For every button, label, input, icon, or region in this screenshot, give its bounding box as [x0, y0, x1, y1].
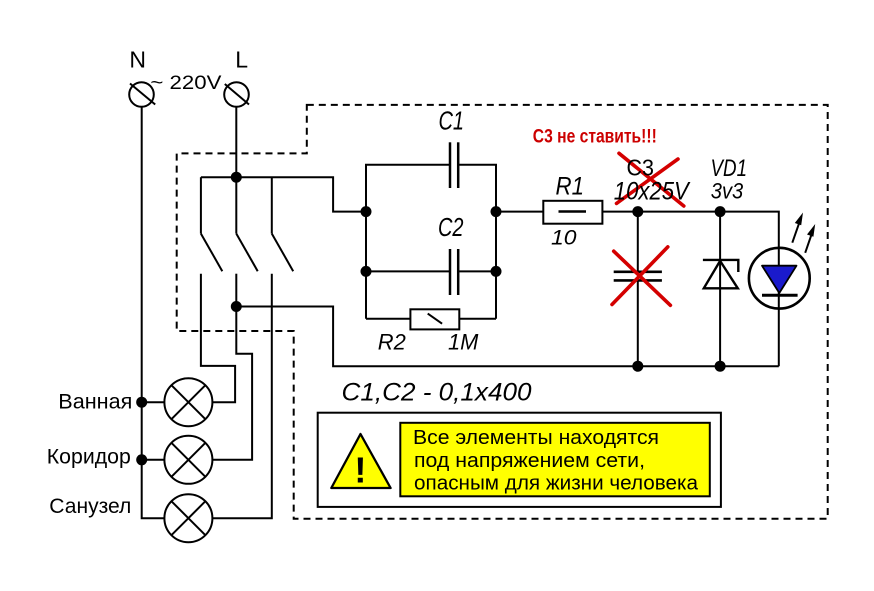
- svg-text:N: N: [129, 46, 146, 72]
- svg-text:C1: C1: [439, 107, 465, 135]
- svg-text:10: 10: [551, 226, 577, 249]
- svg-text:С3 не ставить!!!: С3 не ставить!!!: [533, 126, 657, 147]
- svg-text:Все элементы находятся: Все элементы находятся: [413, 427, 659, 449]
- svg-text:Санузел: Санузел: [49, 495, 131, 518]
- svg-text:Коридор: Коридор: [47, 446, 131, 469]
- svg-text:C2: C2: [438, 214, 464, 242]
- svg-text:3v3: 3v3: [711, 178, 744, 203]
- svg-text:C3: C3: [627, 155, 655, 181]
- svg-text:!: !: [354, 450, 366, 491]
- svg-text:~ 220V: ~ 220V: [150, 72, 221, 94]
- svg-text:под напряжением сети,: под напряжением сети,: [414, 450, 645, 472]
- svg-text:1M: 1M: [448, 330, 479, 355]
- svg-text:R2: R2: [378, 330, 406, 355]
- svg-text:L: L: [235, 46, 248, 72]
- svg-text:C1,C2 - 0,1x400: C1,C2 - 0,1x400: [342, 378, 532, 406]
- svg-text:опасным для жизни человека: опасным для жизни человека: [414, 472, 699, 494]
- svg-text:R1: R1: [556, 172, 585, 200]
- svg-text:10x25V: 10x25V: [614, 178, 691, 206]
- svg-text:Ванная: Ванная: [58, 390, 132, 413]
